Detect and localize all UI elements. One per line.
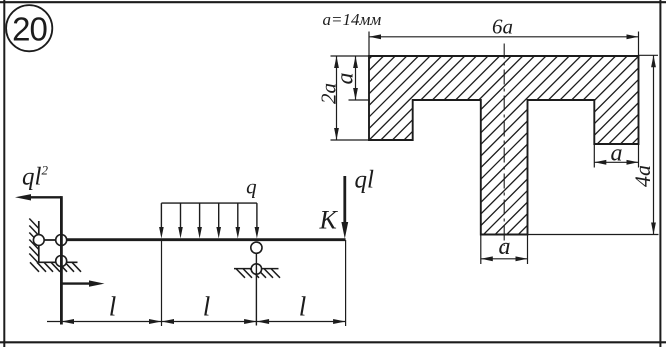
- svg-text:2a: 2a: [317, 83, 341, 104]
- dimension 4a (right): [528, 55, 659, 234]
- link wall to post: [39, 239, 62, 241]
- dimension 2a (left): [331, 56, 370, 140]
- svg-text:6a: 6a: [492, 15, 513, 39]
- distributed load q top line: [161, 202, 257, 204]
- distributed load arrows: [161, 203, 257, 228]
- middle support stem + extension line: [255, 253, 257, 325]
- middle support ground hatching: [236, 269, 280, 278]
- dimension chain line: [47, 321, 346, 323]
- border frame left line: [3, 0, 5, 347]
- border frame right line: [659, 0, 661, 347]
- svg-text:ql: ql: [355, 167, 375, 194]
- badge circle: [6, 5, 52, 51]
- svg-text:a: a: [499, 234, 511, 260]
- middle support lower circle: [251, 264, 261, 274]
- svg-text:q: q: [246, 175, 257, 199]
- wall hatching: [29, 219, 39, 264]
- cross-section hatching: [188, 50, 666, 240]
- svg-text:l: l: [299, 292, 307, 322]
- border frame top line: [0, 1, 666, 3]
- svg-text:a=14мм: a=14мм: [323, 10, 382, 29]
- svg-text:4a: 4a: [630, 165, 655, 187]
- svg-text:l: l: [109, 292, 117, 322]
- floor hatching: [30, 262, 81, 272]
- cross-section outline: [369, 56, 639, 235]
- dimension a (right column width): [594, 144, 638, 168]
- roller circle on post upper: [56, 235, 67, 246]
- wall line: [38, 221, 40, 262]
- floor line: [39, 261, 78, 263]
- svg-text:20: 20: [12, 11, 47, 48]
- roller circle on post lower: [56, 256, 67, 267]
- dimension chain extension lines: [162, 240, 346, 326]
- centerline of section: [503, 44, 505, 247]
- dimension arrows: [61, 319, 345, 324]
- dimension a (stem width): [481, 235, 528, 265]
- moment arrow (points left): [30, 196, 61, 198]
- lower arrow (points right): [61, 282, 93, 284]
- roller circle on wall: [33, 235, 44, 246]
- dimension a (flange thickness, left): [331, 56, 370, 100]
- dimension 6a: [369, 32, 639, 57]
- middle support upper circle: [251, 242, 262, 253]
- svg-text:l: l: [203, 292, 211, 322]
- beam: [61, 238, 345, 241]
- svg-text:a: a: [611, 141, 623, 167]
- post: [60, 196, 63, 324]
- svg-text:K: K: [319, 206, 339, 235]
- force ql arrow: [343, 176, 346, 225]
- border frame bottom line: [0, 341, 666, 343]
- middle support ground line: [234, 268, 279, 270]
